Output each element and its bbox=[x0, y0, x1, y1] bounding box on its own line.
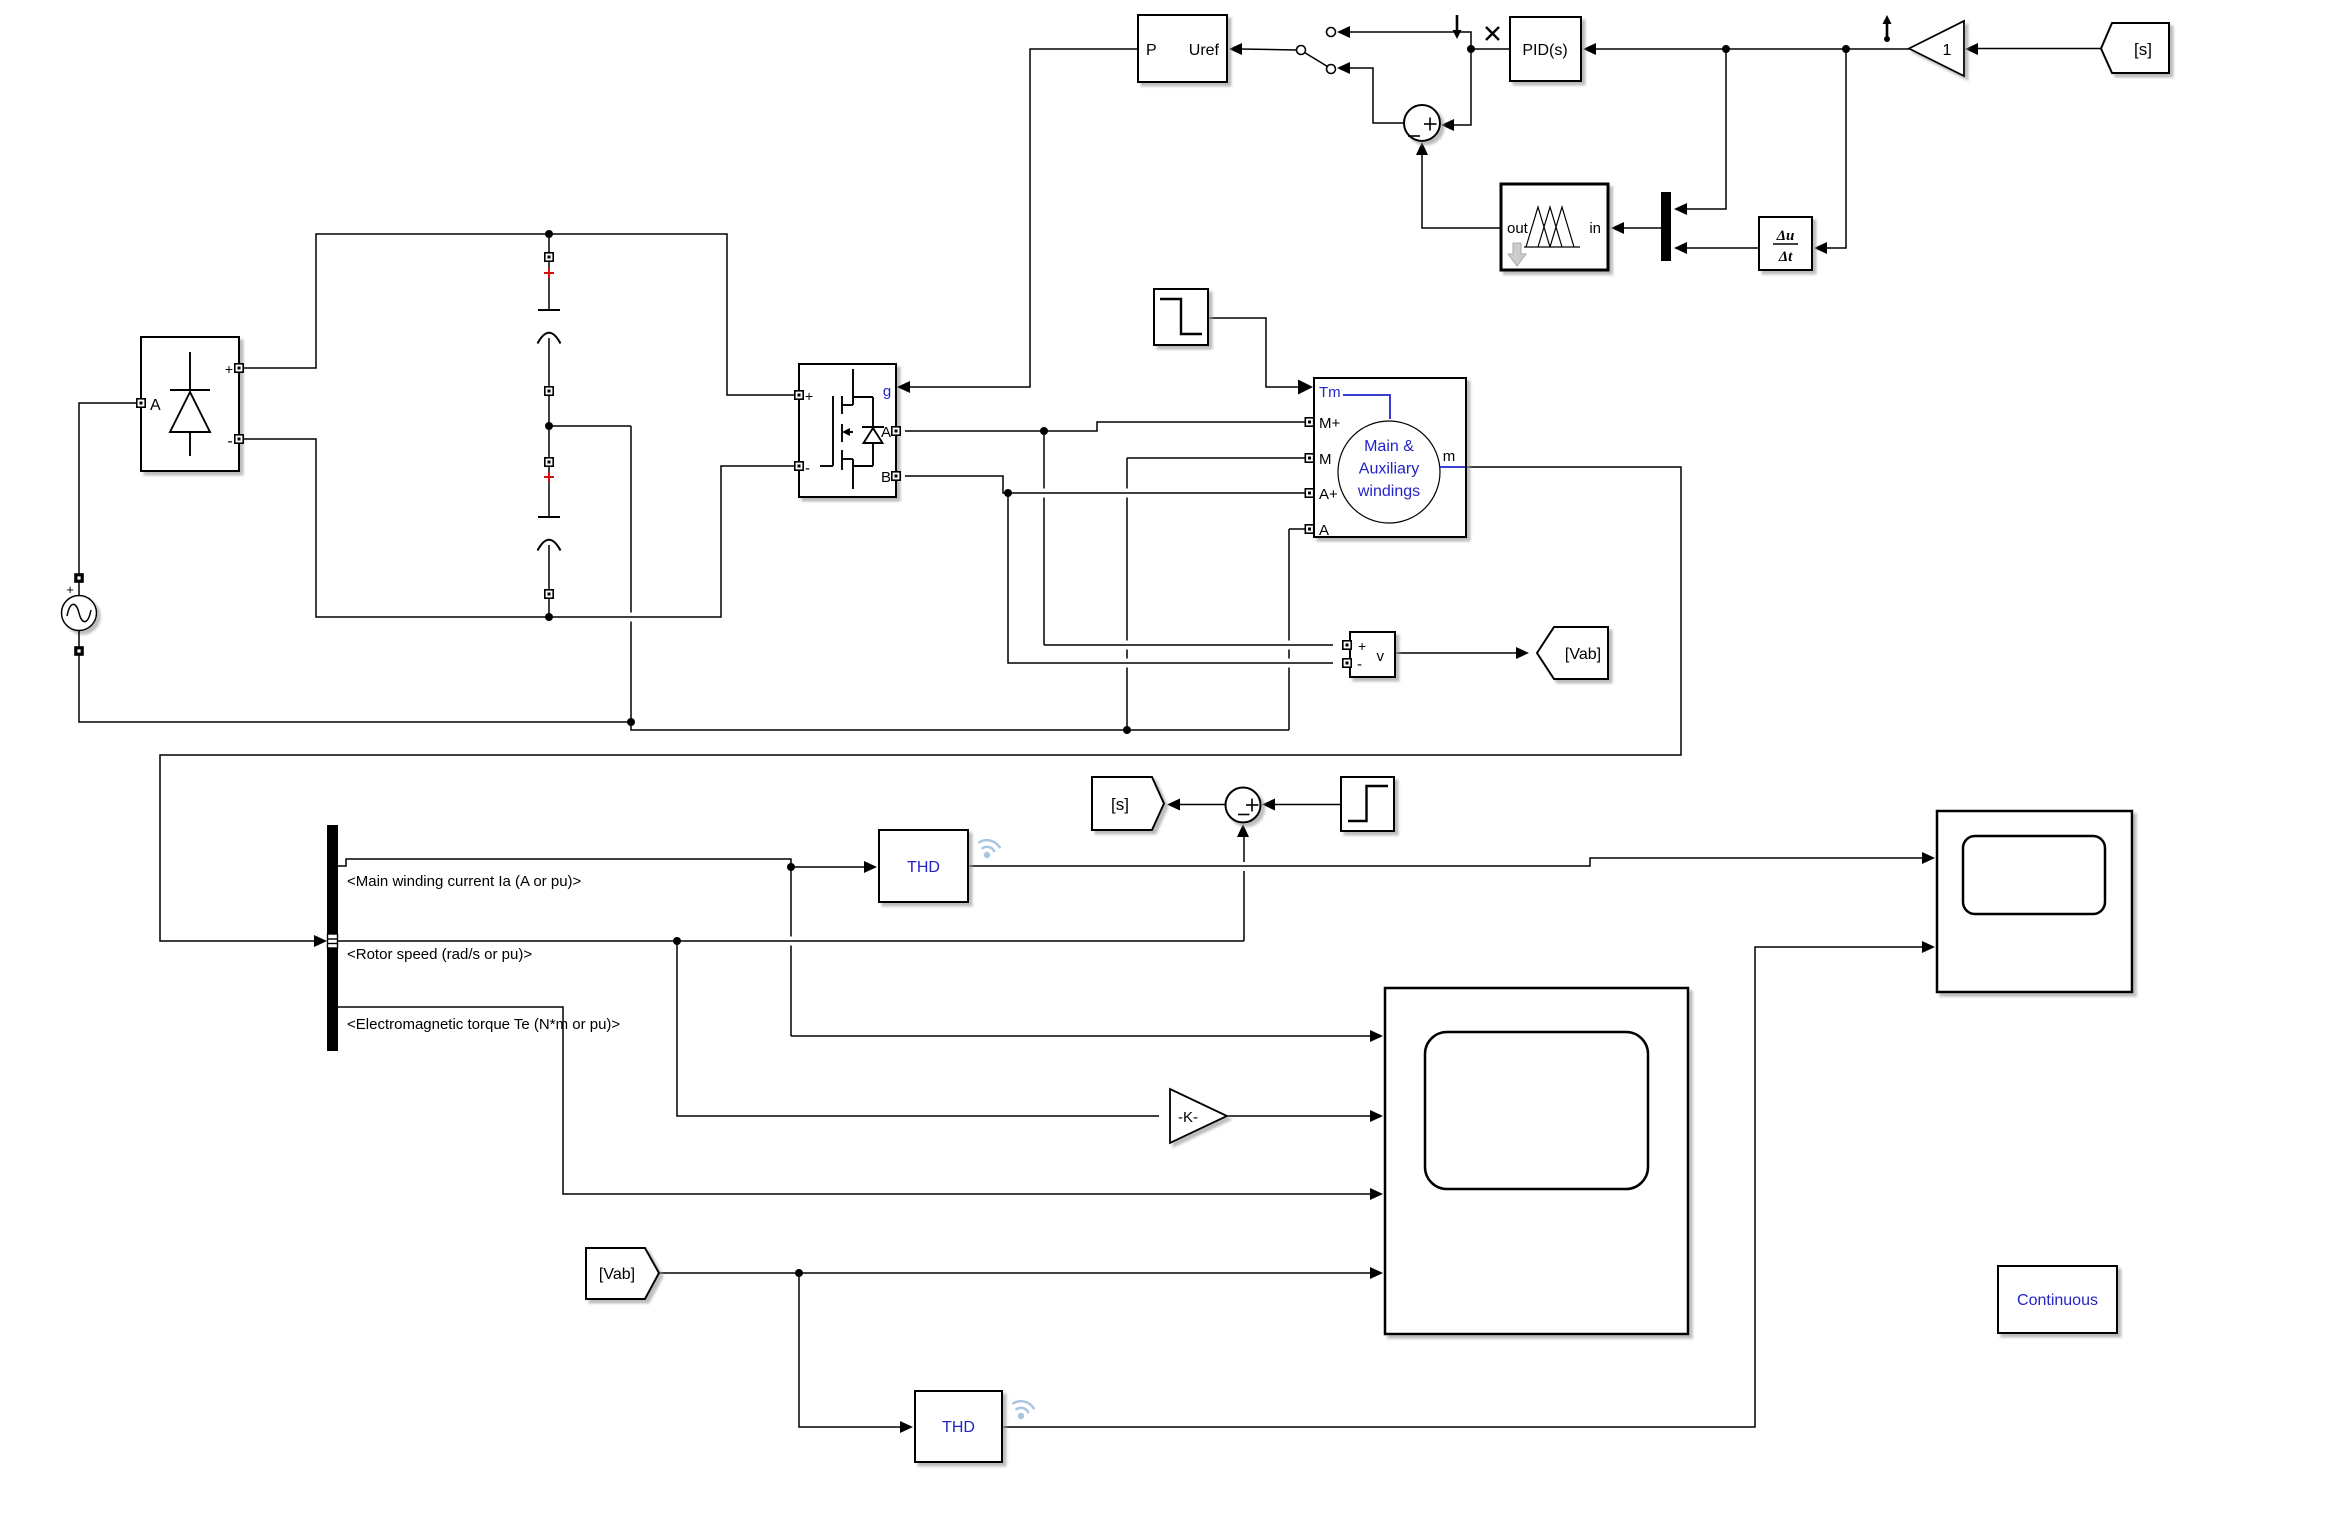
svg-text:<Electromagnetic torque Te (N*: <Electromagnetic torque Te (N*m or pu)> bbox=[347, 1016, 620, 1033]
svg-text:<Rotor speed (rad/s or pu)>: <Rotor speed (rad/s or pu)> bbox=[347, 946, 532, 963]
svg-text:v: v bbox=[1377, 648, 1385, 665]
svg-text:-: - bbox=[1357, 656, 1362, 673]
svg-text:-: - bbox=[805, 460, 810, 477]
svg-text:+: + bbox=[225, 361, 233, 377]
svg-text:P: P bbox=[1146, 42, 1157, 59]
svg-text:THD: THD bbox=[907, 859, 940, 876]
svg-text:<Main winding current Ia (A or: <Main winding current Ia (A or pu)> bbox=[347, 873, 582, 890]
svg-text:Continuous: Continuous bbox=[2017, 1292, 2098, 1309]
svg-text:Uref: Uref bbox=[1189, 42, 1220, 59]
svg-text:[Vab]: [Vab] bbox=[1565, 646, 1601, 663]
svg-text:windings: windings bbox=[1357, 483, 1420, 500]
svg-text:Δu: Δu bbox=[1776, 228, 1795, 244]
svg-text:Auxiliary: Auxiliary bbox=[1359, 461, 1419, 478]
svg-text:Main &: Main & bbox=[1364, 438, 1414, 455]
svg-text:1: 1 bbox=[1943, 42, 1952, 59]
svg-text:+: + bbox=[1358, 638, 1366, 654]
svg-text:Tm: Tm bbox=[1319, 384, 1341, 401]
svg-text:[s]: [s] bbox=[1111, 795, 1129, 814]
svg-text:+: + bbox=[805, 388, 813, 404]
svg-text:+: + bbox=[66, 582, 74, 597]
svg-text:THD: THD bbox=[942, 1419, 975, 1436]
svg-text:M+: M+ bbox=[1319, 415, 1340, 432]
svg-text:A+: A+ bbox=[1319, 486, 1338, 503]
svg-text:g: g bbox=[883, 383, 891, 400]
svg-text:-K-: -K- bbox=[1178, 1109, 1198, 1126]
svg-text:in: in bbox=[1589, 220, 1601, 237]
svg-text:[s]: [s] bbox=[2134, 40, 2152, 59]
svg-text:A: A bbox=[150, 397, 161, 414]
svg-text:out: out bbox=[1507, 220, 1529, 237]
svg-text:PID(s): PID(s) bbox=[1522, 42, 1567, 59]
svg-text:-: - bbox=[227, 433, 232, 450]
svg-text:m: m bbox=[1443, 448, 1456, 465]
svg-text:[Vab]: [Vab] bbox=[599, 1266, 635, 1283]
svg-text:B: B bbox=[881, 469, 891, 486]
svg-text:Δt: Δt bbox=[1778, 249, 1793, 265]
svg-text:A: A bbox=[1319, 522, 1329, 539]
svg-text:M: M bbox=[1319, 451, 1332, 468]
